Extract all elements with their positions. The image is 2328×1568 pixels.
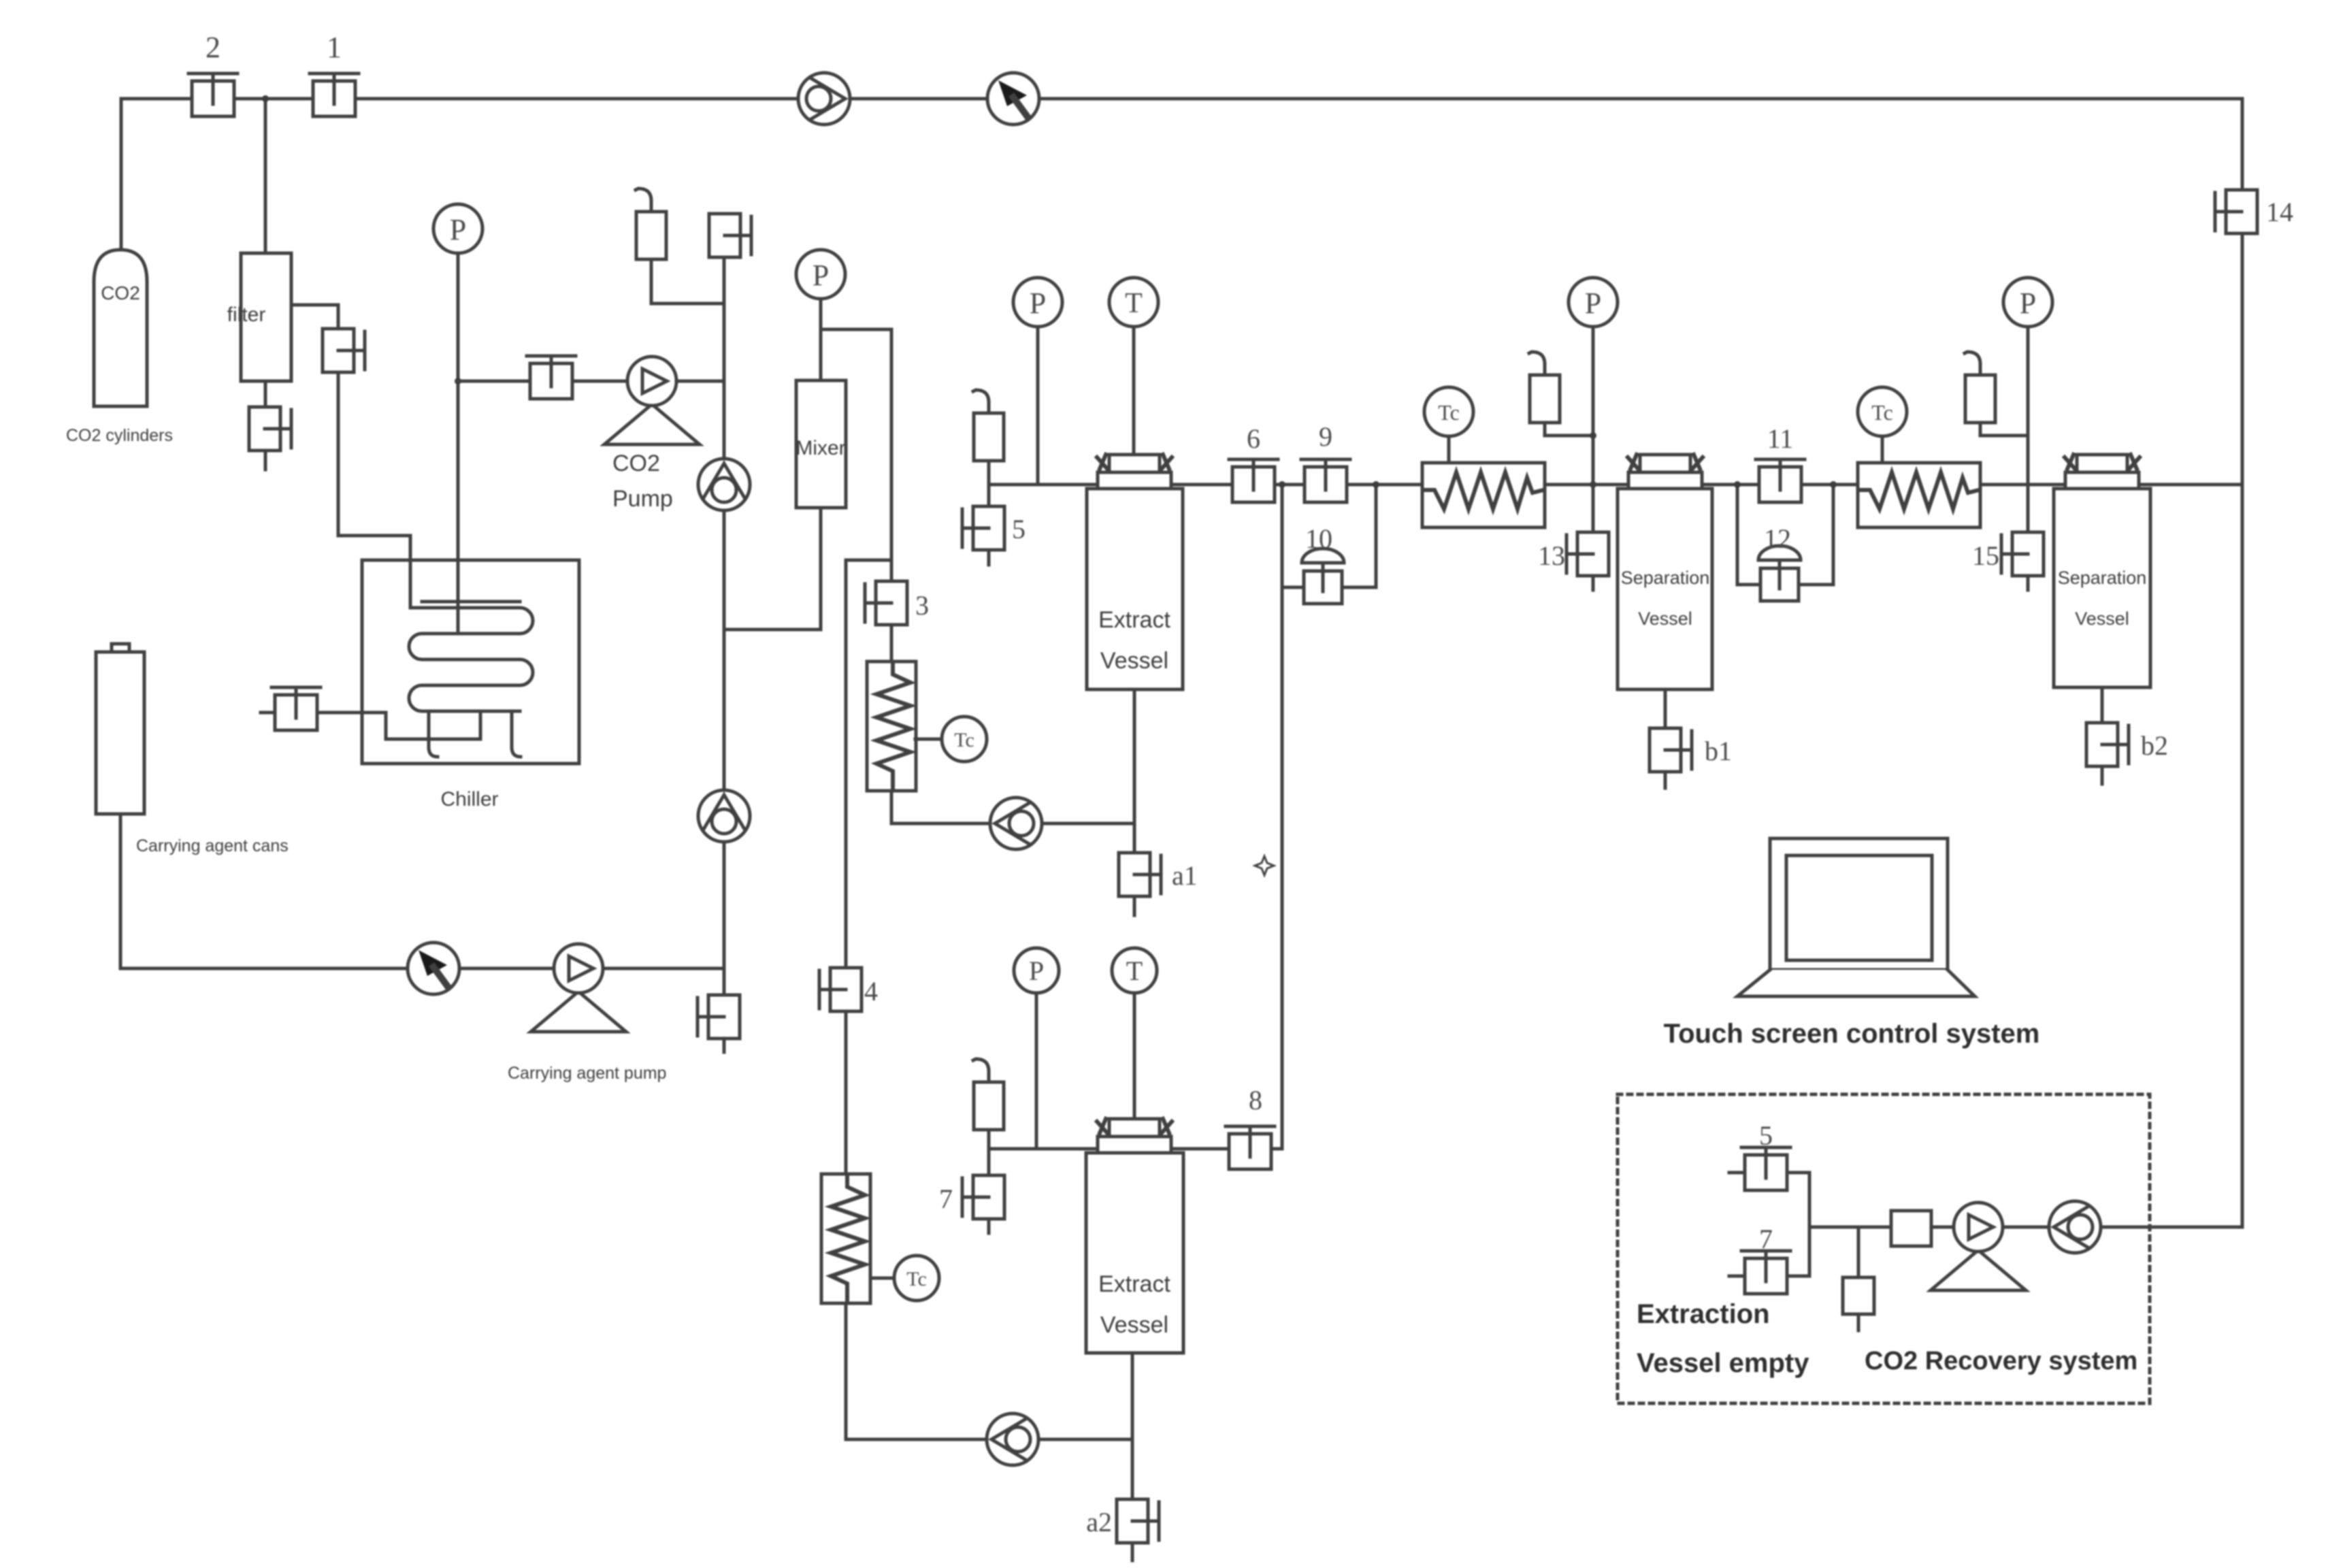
- valve 8: [1226, 1126, 1275, 1169]
- node: bus/P2 junction: [1590, 481, 1596, 488]
- svg-text:Vessel: Vessel: [1100, 648, 1168, 674]
- svg-text:Mixer: Mixer: [796, 437, 845, 459]
- extract vessel 2: [1086, 1153, 1183, 1353]
- wire: vessel2 bottom stem: [1131, 1353, 1134, 1499]
- wire: HX riser down to valve 3: [890, 329, 894, 585]
- wire: valve-4 drop line upper: [845, 560, 848, 967]
- carrying agent can: [96, 644, 144, 814]
- wire: CO2 cylinder riser: [120, 99, 123, 250]
- heat exchanger HX4: [821, 1174, 870, 1303]
- wire: valve 15 stub: [2027, 575, 2030, 590]
- wire: recovery manifold to filter box: [1809, 1226, 1891, 1229]
- wire: carrying agent can drop and line: [120, 814, 724, 968]
- svg-text:Touch screen control system: Touch screen control system: [1664, 1019, 2040, 1049]
- svg-text:Carrying agent cans: Carrying agent cans: [136, 836, 289, 855]
- wire: valve 10 branch right: [1342, 485, 1376, 587]
- wire: feed to CO2 pump valve: [458, 380, 531, 383]
- node: bus/riser junction: [1279, 481, 1285, 488]
- svg-text:Tc: Tc: [1871, 400, 1893, 425]
- recovery valve 5: [1741, 1147, 1790, 1190]
- valve 15: [2001, 532, 2044, 576]
- svg-text:14: 14: [2266, 197, 2293, 227]
- svg-text:5: 5: [1759, 1120, 1773, 1151]
- svg-text:Extraction: Extraction: [1637, 1299, 1770, 1329]
- svg-text:Carrying agent pump: Carrying agent pump: [508, 1064, 666, 1083]
- svg-text:T: T: [1126, 955, 1143, 986]
- svg-text:P: P: [1030, 287, 1046, 320]
- wire: valve a1 stub: [1133, 897, 1136, 915]
- wire: mixer P4 stem: [819, 300, 823, 380]
- svg-text:Tc: Tc: [954, 729, 974, 751]
- wire: valve 7 stub: [987, 1220, 991, 1233]
- recovery drain box: [1843, 1277, 1874, 1314]
- node: top bus / filter junction: [262, 95, 269, 102]
- check valve (carrying line): [408, 943, 459, 994]
- valve b1: [1650, 728, 1692, 772]
- svg-text:7: 7: [1759, 1224, 1773, 1254]
- wire: P0 gauge stem: [457, 253, 460, 381]
- gauge T2: [1112, 948, 1157, 993]
- sparkle mark: [1255, 856, 1274, 875]
- relief R2: [1529, 352, 1560, 423]
- svg-text:11: 11: [1767, 423, 1794, 454]
- wire: relief R5c stem: [987, 457, 991, 485]
- wire: valve 3 to HX3: [890, 621, 894, 662]
- gauge P2: [1569, 278, 1618, 327]
- svg-text:Extract: Extract: [1098, 607, 1170, 633]
- rotary pump (riser upper): [698, 459, 750, 510]
- gauge P5: [1014, 948, 1059, 993]
- filter: [227, 253, 291, 381]
- chiller coil windings: [409, 608, 533, 711]
- wire: filter box to pump: [1931, 1226, 1954, 1229]
- gauge Tc4: [894, 1256, 939, 1301]
- svg-text:filter: filter: [227, 304, 266, 326]
- valve a2: [1117, 1499, 1159, 1543]
- svg-text:CO2: CO2: [612, 451, 660, 476]
- valve 10: [1302, 549, 1344, 604]
- wire: recovery outlet to right vertical: [2101, 1226, 2242, 1229]
- wire: recovery valve7 stubs: [1729, 1275, 1747, 1278]
- recovery rotary pump: [2049, 1201, 2101, 1253]
- wire: separation2 bottom stem: [2101, 687, 2104, 723]
- svg-text:P: P: [1585, 287, 1601, 320]
- wire: riser to extract vessel 2: [1272, 485, 1282, 1149]
- wire: valve to CO2 pump: [572, 380, 627, 383]
- heat exchanger HX3: [867, 661, 916, 791]
- svg-text:13: 13: [1538, 540, 1565, 571]
- svg-text:Pump: Pump: [612, 486, 673, 512]
- wire: jog to valve-4 drop line: [846, 559, 891, 562]
- wire: recovery drain stub: [1857, 1314, 1860, 1330]
- CO2 cylinder: [94, 250, 147, 406]
- valve b2: [2086, 723, 2129, 766]
- gauge Tc1: [1424, 387, 1473, 436]
- svg-text:5: 5: [1012, 514, 1026, 544]
- svg-text:a2: a2: [1086, 1507, 1112, 1537]
- wire: chiller bottom valve left stub: [261, 711, 276, 715]
- heat exchanger HX2: [1858, 463, 1980, 527]
- carrying agent pump: [531, 944, 626, 1032]
- svg-text:6: 6: [1247, 423, 1260, 454]
- wire: P3 column: [2027, 327, 2030, 533]
- wire: main riser x1064: [723, 259, 726, 995]
- svg-text:Vessel: Vessel: [1638, 608, 1692, 629]
- wire: valve 5 stub: [987, 550, 991, 565]
- rotary pump (vessel2 bottom): [987, 1414, 1038, 1465]
- wire: relief R4 stem: [987, 1126, 991, 1149]
- gauge P3: [2003, 278, 2052, 327]
- wire: filter bottom stem: [264, 381, 267, 407]
- svg-text:CO2 cylinders: CO2 cylinders: [66, 426, 173, 445]
- separation vessel 1: [1618, 489, 1712, 689]
- valve a1: [1119, 853, 1161, 896]
- svg-text:CO2 Recovery system: CO2 Recovery system: [1865, 1347, 2137, 1375]
- bottom vent valve: [698, 995, 740, 1039]
- chiller inlet valve: [272, 687, 321, 730]
- rotary pump (top line): [798, 73, 850, 125]
- wire: Tc2 stem: [1881, 436, 1884, 463]
- wire: valve 7 stem: [987, 1149, 991, 1175]
- svg-text:Tc: Tc: [906, 1268, 927, 1290]
- gauge T1: [1109, 278, 1158, 327]
- wire: vessel1 bottom stem: [1133, 689, 1136, 852]
- gauge Tc2: [1858, 387, 1907, 436]
- node: R2 junction: [1590, 432, 1596, 439]
- extract vessel 1: [1087, 489, 1183, 689]
- wire: relief R3 link: [1980, 423, 2028, 436]
- wire: recovery manifold riser: [1808, 1173, 1811, 1276]
- separation vessel 2 lid: [2065, 455, 2140, 489]
- check valve (top line): [987, 73, 1039, 125]
- node: junction P0/pump feed: [455, 378, 461, 385]
- svg-text:Extract: Extract: [1098, 1271, 1170, 1297]
- wire: valve 4 to HX4: [845, 1012, 848, 1175]
- svg-text:3: 3: [915, 590, 929, 621]
- relief R1: [636, 189, 666, 259]
- wire: T2 stem: [1133, 993, 1136, 1122]
- valve 13: [1567, 532, 1609, 576]
- svg-text:CO2: CO2: [101, 282, 140, 304]
- wire: branch P4 to HX riser: [821, 328, 891, 331]
- wire: valve b1 stub: [1664, 772, 1667, 788]
- svg-text:P: P: [2020, 287, 2036, 320]
- svg-text:a1: a1: [1172, 860, 1198, 891]
- svg-text:15: 15: [1972, 540, 1999, 571]
- wire: recovery valve5 stubs: [1729, 1171, 1747, 1175]
- valve 5: [962, 506, 1004, 550]
- filter side valve: [323, 329, 365, 372]
- filter bottom valve: [249, 407, 291, 451]
- svg-text:Separation: Separation: [1621, 568, 1710, 588]
- wire: CO2 pump outlet: [676, 380, 724, 383]
- gauge P4 (mixer): [796, 250, 845, 299]
- svg-text:Vessel empty: Vessel empty: [1637, 1348, 1809, 1378]
- svg-text:Tc: Tc: [1438, 400, 1460, 425]
- wire: right return vertical: [2241, 99, 2244, 1227]
- wire: recovery drain branch: [1857, 1227, 1860, 1277]
- gauge P0: [433, 204, 482, 253]
- relief R3: [1965, 352, 1995, 423]
- valve 11: [1756, 459, 1805, 502]
- svg-text:12: 12: [1764, 523, 1791, 554]
- wire: bottom vent valve stub: [723, 1039, 726, 1052]
- wire: extract vessel2 top line right to valve 8: [1171, 1147, 1229, 1151]
- wire: HX4 to bottom run: [846, 1302, 1132, 1439]
- wire: valve b2 stub: [2101, 766, 2104, 784]
- wire: drop to filter: [264, 99, 267, 253]
- svg-text:1: 1: [327, 31, 342, 64]
- dashed recovery box: [1618, 1094, 2150, 1403]
- wire: relief R1 link: [651, 259, 724, 304]
- node: bus/loop12 junction: [1734, 481, 1741, 488]
- valve 1: [310, 73, 359, 116]
- wire: valve 12 loop right: [1798, 485, 1833, 585]
- valve 7: [962, 1175, 1004, 1219]
- svg-text:b2: b2: [2141, 730, 2168, 761]
- wire: top bus line: [121, 97, 2242, 101]
- gauge Tc3: [942, 717, 987, 762]
- top manifold valve: [709, 214, 751, 257]
- valve 14: [2215, 190, 2257, 233]
- svg-text:4: 4: [864, 976, 878, 1007]
- wire: mixer outlet to riser: [724, 508, 821, 630]
- wire: filter bottom valve stub: [264, 451, 267, 470]
- svg-text:9: 9: [1319, 421, 1332, 452]
- node: loop12 bus junction: [1830, 481, 1837, 488]
- wire: valve 5 stem: [987, 485, 991, 507]
- recovery pump: [1931, 1203, 2026, 1290]
- wire: separation1 bottom stem: [1664, 689, 1667, 728]
- gauge P1: [1013, 278, 1062, 327]
- relief R5c (vessel1 inlet): [973, 390, 1004, 461]
- wire: relief R2 link: [1545, 423, 1593, 436]
- valve 3: [865, 581, 907, 625]
- svg-text:Vessel: Vessel: [1100, 1312, 1168, 1338]
- svg-text:2: 2: [206, 31, 220, 64]
- wire: P0 line into chiller coil: [457, 381, 460, 634]
- wire: T1 stem: [1132, 327, 1136, 455]
- wire: valve 12 loop left: [1737, 485, 1761, 585]
- wire: pump to rotary pump: [2003, 1226, 2049, 1229]
- rotary pump (vessel1 bottom): [990, 798, 1042, 849]
- heat exchanger HX1: [1422, 463, 1545, 527]
- svg-text:Separation: Separation: [2058, 568, 2147, 588]
- recovery filter box: [1891, 1211, 1931, 1246]
- svg-text:T: T: [1125, 288, 1143, 319]
- valve 9: [1301, 459, 1350, 502]
- recovery valve 7: [1741, 1251, 1790, 1294]
- svg-text:10: 10: [1305, 523, 1332, 554]
- rotary pump (riser lower): [698, 790, 750, 842]
- wire: chiller bottom step line: [316, 711, 480, 739]
- svg-text:P: P: [813, 259, 829, 292]
- separation vessel 2: [2054, 489, 2150, 687]
- svg-text:8: 8: [1249, 1085, 1262, 1115]
- separation vessel 1 lid: [1628, 455, 1703, 489]
- laptop (touch screen): [1737, 838, 1975, 996]
- svg-text:b1: b1: [1705, 736, 1732, 766]
- extract vessel 2 lid: [1097, 1119, 1172, 1153]
- CO2 pump: [604, 357, 700, 444]
- wire: Tc1 stem: [1447, 436, 1451, 463]
- valve C1 (CO2 pump suction): [527, 356, 576, 399]
- svg-text:Vessel: Vessel: [2075, 608, 2129, 629]
- mixer: [796, 380, 846, 508]
- wire: filter side tap to chiller: [291, 305, 338, 329]
- wire: process bus line: [989, 483, 2242, 487]
- valve 2: [188, 73, 237, 116]
- svg-text:P: P: [1029, 955, 1044, 986]
- valve 12: [1758, 546, 1801, 601]
- wire: extract vessel2 top line left: [989, 1147, 1098, 1151]
- node: loop10 bus junction: [1373, 481, 1379, 488]
- wire: P5 stem: [1035, 993, 1038, 1149]
- wire: valve 10 branch left: [1282, 586, 1304, 589]
- wire: P1 stem: [1036, 327, 1040, 485]
- chiller coil top double line: [422, 600, 520, 604]
- wire: side valve down-jog into chiller coil: [338, 372, 410, 606]
- svg-text:Chiller: Chiller: [440, 788, 498, 811]
- extract vessel 1 lid: [1097, 455, 1172, 489]
- chiller coil feet: [429, 711, 521, 757]
- chiller shell: [362, 560, 579, 764]
- wire: P2 column: [1592, 327, 1595, 533]
- valve 6: [1229, 459, 1278, 502]
- svg-text:P: P: [450, 213, 466, 246]
- valve 4: [819, 968, 862, 1011]
- wire: HX3 to vessel1 bottom run: [891, 791, 1134, 823]
- relief R4: [973, 1059, 1004, 1130]
- svg-text:7: 7: [939, 1183, 953, 1214]
- wire: valve a2 stub: [1131, 1543, 1134, 1561]
- wire: valve 13 stub: [1592, 575, 1595, 590]
